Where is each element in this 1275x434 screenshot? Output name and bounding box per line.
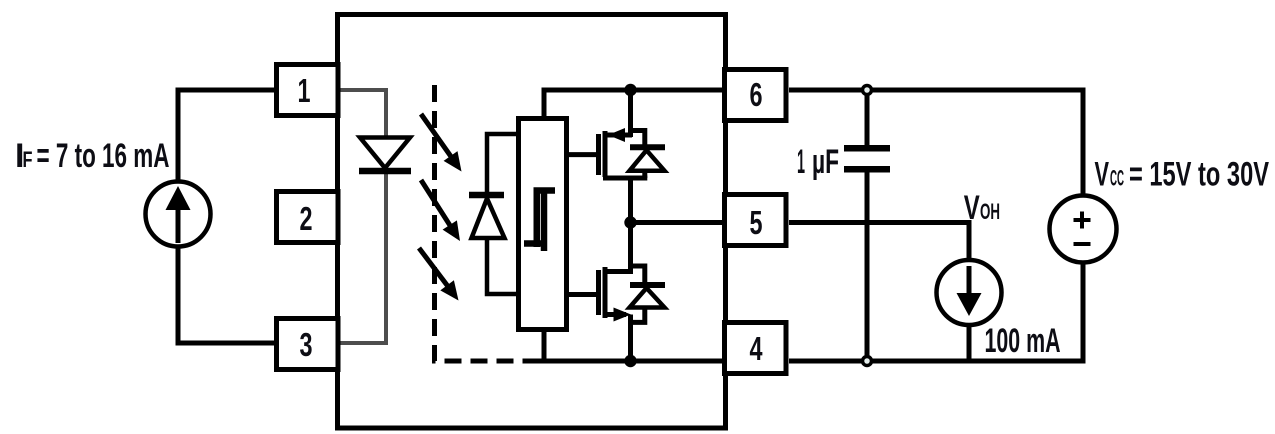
Q1 gate bar — [596, 134, 601, 175]
wire: pin1 - LED - pin3 loop (gray) — [340, 90, 386, 343]
svg-text:CC: CC — [1110, 166, 1124, 191]
svg-text:V: V — [964, 189, 980, 227]
capacitor C1 bottom lead — [865, 172, 870, 361]
Q2 body-diode top jog — [628, 266, 645, 285]
wire: pin 6 to VCC supply (top) — [789, 90, 1083, 198]
svg-text:2: 2 — [300, 200, 313, 237]
LED D1 cathode bar — [359, 168, 411, 175]
wire: GND bottom rail to pin 4 — [531, 359, 726, 364]
Q2 source lead with arrow (right) — [606, 312, 626, 317]
Q1 body diode anode lead — [642, 170, 647, 178]
Q2 source vertical to GND rail — [628, 315, 633, 364]
Q1 drain lead — [603, 176, 647, 181]
capacitor C1 bottom plate — [844, 166, 890, 173]
junction dot: Q2 source at GND rail — [624, 355, 636, 367]
Q2 gate lead — [567, 292, 597, 297]
capacitor C1 top plate — [844, 145, 890, 152]
Q2 body diode anode jog — [629, 307, 645, 322]
Q2 gate bar — [596, 270, 601, 315]
Q2 channel bar — [603, 267, 608, 318]
svg-text:µF: µF — [812, 143, 839, 181]
svg-text:= 15V to 30V: = 15V to 30V — [1129, 156, 1269, 194]
Q1 gate lead — [567, 152, 597, 157]
Q2 drain vertical from output node — [628, 220, 633, 274]
pin 3 box — [277, 319, 339, 370]
wire: output mid rail to pin 5 — [630, 220, 727, 225]
junction dot: Q1 source at VCC rail — [624, 84, 636, 96]
Q1 source lead with arrow (left) — [606, 133, 632, 138]
wire: block top pin + VCC top rail to pin 6 — [544, 90, 726, 120]
hysteresis symbol — [537, 191, 555, 248]
Q1 drain vertical to output node — [628, 178, 633, 225]
svg-text:1: 1 — [298, 72, 311, 109]
wire: block bottom pin — [542, 330, 547, 361]
light arrow 1 — [421, 114, 452, 158]
svg-text:V: V — [1095, 156, 1110, 194]
Q1 body-diode top jog — [628, 131, 645, 149]
svg-text:F: F — [23, 147, 33, 172]
current source IF circle — [146, 182, 211, 247]
light arrow 3 — [419, 248, 448, 287]
pin 1 box — [277, 65, 339, 116]
Q2 body diode cathode bar — [630, 282, 665, 288]
pin 4 box — [725, 323, 787, 374]
pin 6 box — [725, 70, 787, 121]
Q1 source vertical to VCC rail — [628, 88, 633, 137]
VOH load current source circle — [937, 260, 1002, 325]
wire: photodiode branch to detector block — [487, 134, 519, 294]
wire: current source bottom to pin 3 — [178, 244, 276, 343]
pin 5 box — [725, 195, 787, 246]
photodiode D2 (triangle up) — [472, 199, 505, 239]
wire: pin 4 GND rail (right) — [789, 359, 1086, 364]
junction dot (open): capacitor top node — [863, 86, 872, 95]
Q1 body diode (triangle up) — [630, 150, 665, 171]
Q1 channel bar — [603, 131, 608, 177]
svg-text:= 7 to 16 mA: = 7 to 16 mA — [37, 137, 170, 175]
svg-text:5: 5 — [750, 204, 763, 241]
VOH load current source arrow (down) — [967, 266, 972, 298]
svg-text:OH: OH — [980, 199, 1000, 224]
LED emitter diode D1 (triangle down) — [360, 138, 410, 169]
junction dot (open): capacitor bottom node — [863, 357, 872, 366]
VCC source plus sign — [1074, 218, 1091, 222]
pin 2 box — [277, 192, 339, 243]
current source IF arrow (up) — [176, 205, 181, 243]
IC package U1 outline (6-pin optocoupler) — [338, 15, 726, 429]
wire: VOH load to GND rail — [967, 323, 972, 361]
detector/schmitt block rectangle — [519, 119, 567, 330]
Q1 body diode cathode bar — [630, 144, 665, 150]
VCC source minus sign — [1074, 242, 1091, 246]
svg-text:4: 4 — [750, 330, 763, 367]
svg-text:100 mA: 100 mA — [985, 322, 1061, 360]
svg-text:6: 6 — [750, 76, 763, 113]
wire: VCC supply bottom to GND rail — [1081, 260, 1086, 364]
wire: pin 5 to VOH load — [789, 223, 969, 263]
Q2 drain lead — [603, 269, 632, 274]
photodiode D2 cathode bar — [469, 192, 504, 199]
Q2 body diode (triangle up) — [630, 288, 665, 308]
capacitor C1 top lead — [865, 90, 870, 146]
svg-text:3: 3 — [300, 326, 313, 363]
junction dot: output node at mid rail — [624, 216, 636, 228]
VCC voltage source circle — [1050, 196, 1117, 263]
dashed optical shield line — [435, 85, 534, 361]
wire: current source top to pin 1 — [178, 90, 276, 184]
light arrow 2 — [421, 180, 451, 227]
svg-text:1: 1 — [797, 143, 805, 181]
